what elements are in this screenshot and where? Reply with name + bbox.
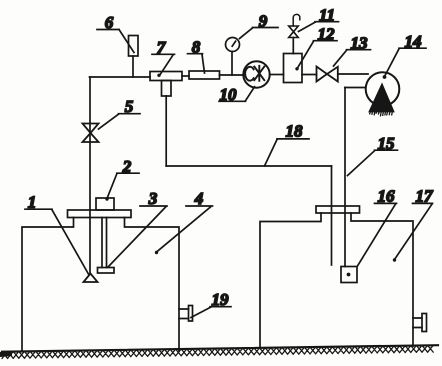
label 11: [299, 6, 339, 32]
box 12: [284, 54, 303, 83]
label 10: [219, 85, 255, 104]
ground ink blob left end: [0, 352, 12, 357]
tank 2 side fitting stub: [413, 318, 422, 328]
label 5: [99, 97, 141, 129]
fitting 7 stub: [162, 81, 172, 97]
label 19: [191, 290, 231, 318]
valve 11: [289, 26, 299, 38]
wire: line 18 drop into tank 2: [331, 166, 333, 265]
gauge 9 needle: [232, 41, 235, 46]
wire: overflow line 18 horizontal: [166, 165, 331, 167]
agitator plate 3: [98, 268, 115, 274]
wire: drop from rotameter 6 to main pipe: [132, 56, 134, 77]
ground hatching: [2, 345, 433, 358]
label 3: [108, 189, 167, 267]
fitting 19 stub: [179, 309, 189, 319]
label 6: [97, 13, 134, 53]
tank 2 flange: [316, 206, 360, 213]
sight glass 10 (СЖ): [243, 61, 269, 87]
agitator rod 3: [101, 218, 103, 268]
wire: pipe between fittings 7 and 8: [182, 75, 189, 77]
ground line: [2, 345, 438, 352]
wire: pipe from valve 13 to pump 14: [338, 73, 368, 75]
box 2 on flange: [96, 198, 114, 210]
tank 2 side fitting flange: [422, 314, 427, 332]
node: dot in fitting 7: [157, 74, 160, 77]
tank 1 shell: [22, 218, 179, 352]
label 7: [152, 38, 175, 74]
label 8: [188, 38, 205, 74]
wire: main top-left horizontal pipe: [90, 76, 151, 78]
wire: pipe from box 12 to valve 13: [302, 74, 317, 76]
pump 14: [366, 72, 400, 106]
wire: fitting 7 drain down: [165, 96, 167, 166]
label 15: [348, 134, 398, 176]
tank 2 shell: [260, 213, 413, 347]
label 12: [298, 25, 338, 69]
wire: riser to gauge 9: [231, 52, 233, 76]
label 16: [358, 187, 397, 267]
gauge 9: [226, 38, 240, 52]
label 1: [25, 193, 89, 276]
wire: pipe from sight glass 10 to box 12: [270, 74, 284, 76]
sensor 16 box: [341, 267, 357, 283]
label 14: [383, 32, 426, 79]
wire: stem from valve 11 to box 12: [292, 38, 294, 54]
wire: pump suction stub: [345, 87, 366, 89]
label 13: [334, 34, 371, 67]
wire: suction down-pipe into tank 2 to sensor 16: [344, 88, 346, 267]
label 9: [240, 12, 279, 39]
valve 13: [317, 67, 338, 82]
fitting 7 (tee body): [150, 72, 182, 81]
label 4: [155, 189, 213, 254]
pump 14 rotor triangle: [370, 85, 394, 112]
wire: left vertical pipe from main line down into tank 1: [89, 77, 91, 274]
nozzle triangle (item 1 tip): [84, 274, 98, 283]
tank 1 flange plate: [68, 210, 132, 218]
valve 5: [83, 124, 99, 143]
wire: pipe from fitting 8 to sight glass 10: [220, 74, 244, 76]
fitting 19 flange disk: [189, 306, 193, 322]
node: dot in sensor 16: [347, 273, 351, 277]
label 2: [105, 157, 139, 201]
label 18: [265, 122, 310, 167]
fitting 8 body: [189, 71, 220, 79]
label 17: [393, 187, 434, 262]
rotameter 6 body: [129, 36, 139, 57]
svg-text:18: 18: [286, 122, 304, 141]
vent hook above valve 11: [293, 14, 300, 26]
node: dot in box 12: [295, 67, 298, 70]
pump 14 bristles: [370, 111, 393, 116]
